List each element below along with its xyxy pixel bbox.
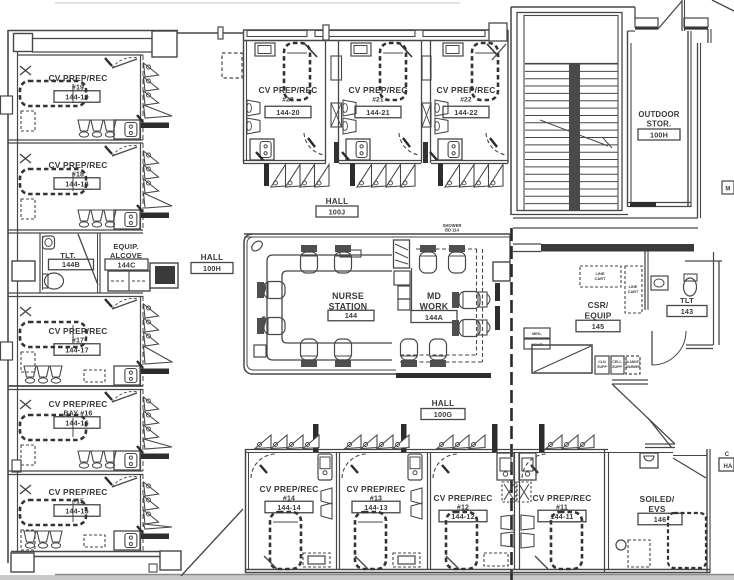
door jamb room 14 [313, 424, 319, 452]
svg-text:CV PREP/REC: CV PREP/REC [434, 493, 493, 503]
tv md right 2 [478, 320, 487, 335]
door jamb bar room 15 [141, 534, 169, 540]
wall: divider tlt/room17 [8, 292, 143, 294]
wall: top band inner line [17, 54, 143, 56]
scissors mark room 19 [20, 66, 31, 75]
wall: room20 left [243, 30, 245, 163]
wall: csr top thin left [513, 243, 541, 245]
svg-text:CV PREP/REC: CV PREP/REC [259, 85, 318, 95]
dashed box hall [222, 53, 242, 78]
door fan room 21 [357, 165, 372, 188]
soiled top wall inner [673, 455, 707, 457]
curtain big triangle room 15 [144, 524, 173, 529]
equip dashed box room 18 [21, 199, 35, 219]
room number box 12 [439, 510, 487, 522]
wall: room12/11 divider [514, 453, 516, 569]
curtain big triangle room 18 [144, 193, 173, 208]
bed room 21 [380, 43, 406, 100]
dark jambs md right [495, 283, 500, 301]
curtain dashed arc room 11 [522, 454, 546, 478]
room number box 144-18 [54, 178, 100, 190]
room number box 11 [538, 510, 586, 522]
chase 21/22 rect lower [422, 103, 431, 127]
wall: room13/12 divider [427, 453, 429, 569]
svg-text:#22: #22 [460, 97, 472, 104]
wall: room14 left [245, 449, 247, 573]
room number box 20 [265, 106, 311, 118]
diagonal into soiled [648, 418, 672, 448]
wall right of diagonal A [681, 0, 683, 31]
curtain fan room 12 [437, 435, 453, 449]
diagonal wall hall100G west [181, 509, 243, 576]
tlt number box 144B [49, 259, 94, 270]
wall stub right of lintel B [707, 29, 709, 43]
bed room 19 [20, 81, 86, 106]
bed room 20 [284, 43, 310, 100]
svg-text:100J: 100J [329, 207, 346, 216]
table room12 [484, 553, 508, 566]
sink unit room 16 [114, 451, 140, 470]
chairs room 19 [78, 120, 90, 131]
entry lintel B [684, 18, 708, 27]
bed room 11 [551, 512, 582, 569]
sink unit room 15 [114, 531, 140, 550]
bottom strip darker edge [55, 574, 734, 576]
curtain dashed arc room 12 [433, 454, 457, 478]
svg-text:STOR.: STOR. [647, 120, 672, 129]
tlt toilet [45, 273, 64, 289]
wall: top of mid rooms outer [243, 29, 508, 31]
svg-text:144A: 144A [425, 313, 443, 322]
door hinge tick room 19 [105, 58, 112, 66]
svg-text:100H: 100H [650, 130, 668, 139]
wall: top of mid rooms inner [243, 40, 508, 42]
tick on top connector [218, 27, 223, 39]
diagonal below csr [612, 384, 675, 444]
column block top-left [14, 34, 33, 52]
column block top band right [152, 31, 177, 57]
wall: right of room15 [140, 474, 142, 551]
hall 100G box [421, 409, 465, 420]
wall: outdoor stor left [627, 31, 629, 207]
outdoor stor door sill [630, 202, 656, 207]
curtain tick room 13 [351, 465, 358, 473]
svg-text:SOILED/: SOILED/ [640, 494, 675, 504]
room number box 144-19 [54, 91, 100, 103]
alcove square below csr [532, 345, 592, 373]
svg-text:#21: #21 [372, 97, 384, 104]
cabinet top-left room 20 [255, 43, 275, 56]
scissors mark room 18 [20, 154, 31, 163]
warmer boxes 12/11 [502, 482, 516, 502]
wall: tlt143 bottom [686, 344, 713, 346]
curtain fan room 14 [255, 435, 271, 449]
curtain fan room 15 [144, 482, 159, 496]
svg-text:CV PREP/REC: CV PREP/REC [349, 85, 408, 95]
svg-text:MD: MD [427, 291, 441, 301]
door leaf room 17 [112, 300, 137, 309]
curtain big triangle room 19 [144, 105, 173, 118]
tv md right 1 [478, 292, 487, 307]
poche chase 21/22 bottom [423, 142, 428, 163]
tv room14 [318, 454, 332, 480]
md dashed counter bottom [400, 354, 477, 356]
tick above wall 20/21 [323, 25, 329, 40]
bed room 17 [20, 322, 86, 347]
chairs room 21 [343, 100, 356, 116]
wall: tlt right outer [685, 260, 722, 262]
wall: right of room16 [140, 389, 142, 471]
window box left wall y350 [1, 342, 13, 360]
curtain fan room 13 [345, 435, 361, 449]
svg-text:CART: CART [594, 276, 606, 281]
curtain dashed arc room 22 [486, 133, 506, 155]
door leaf room 18 [112, 147, 137, 156]
door jamb room 20 [264, 163, 269, 186]
bed room 22 [472, 43, 498, 100]
stair center stringer [569, 63, 580, 210]
door hinge tick room 22 [430, 152, 437, 160]
poche chase 20/21 bottom [334, 142, 339, 163]
wall: bottom rooms top [245, 449, 608, 451]
curtain tick room 22 [490, 138, 497, 147]
soiled door leaf [673, 458, 706, 478]
wall: room21/22 chase [421, 40, 423, 163]
door leaf room22 right [492, 44, 506, 60]
top faint scan line [55, 2, 460, 4]
curtain fan room 17 [144, 304, 159, 318]
room number box 14 [265, 501, 313, 513]
chair nurse left 2 [257, 318, 285, 335]
wall: room22 right [507, 30, 509, 163]
wall: room11/soiled [604, 449, 606, 573]
door hinge tick room 18 [105, 146, 112, 154]
chair md bottom 1 [401, 339, 418, 367]
wall: divider room18/tlt [8, 229, 143, 231]
plant left wall 1 [259, 283, 267, 296]
bed room 12 [446, 512, 477, 569]
window box left wall y465 [12, 460, 21, 472]
outdoor stor box 100H [638, 129, 680, 140]
sink room 20 [250, 139, 274, 160]
tlt door leaf [651, 331, 653, 365]
svg-text:M: M [725, 187, 730, 193]
chair md right 1 [452, 292, 480, 309]
chairs room 16 [78, 451, 90, 462]
equip dashed box room 19 [21, 111, 35, 131]
room number box 22 [443, 106, 489, 118]
curtain dashed arc room 21 [399, 133, 419, 155]
csr box 145 [576, 320, 620, 332]
wall: soiled right [706, 449, 708, 573]
chairs room 17 [24, 366, 36, 377]
chairs room 18 [78, 210, 90, 221]
bed room 14 [270, 512, 301, 569]
svg-text:NURSE: NURSE [332, 291, 364, 301]
door jamb room 21 [350, 163, 355, 186]
table room13 [393, 553, 420, 567]
bed room 18 [20, 169, 86, 194]
svg-text:EQUIP: EQUIP [584, 311, 611, 321]
door jamb bar room 19 [141, 123, 169, 129]
alcove diagonal [534, 346, 591, 372]
sink unit room 19 [114, 120, 140, 139]
stair treads [525, 63, 618, 65]
wall: right of room17 [140, 296, 142, 386]
svg-text:EQUIP.: EQUIP. [113, 242, 138, 251]
door hinge tick room 15 [105, 477, 112, 485]
bed room 13 [355, 512, 386, 569]
chase 20/21 rect lower [331, 103, 342, 127]
wall: bottom rooms bottom [245, 569, 710, 571]
curtain tick room 11 [531, 465, 538, 473]
line cart dashed box v [625, 266, 642, 313]
svg-text:C: C [725, 452, 730, 458]
wall: room14/13 divider [336, 453, 338, 569]
curtain dashed arc room 13 [342, 454, 366, 478]
bottom gray scan strip [0, 575, 734, 580]
wall: outer right of stor [697, 43, 699, 218]
room number box 21 [355, 106, 401, 118]
svg-text:SUPP: SUPP [597, 365, 607, 369]
wall: csr top poche [541, 244, 694, 252]
chair nurse bottom 2 [335, 339, 352, 367]
scissors mark room 17 [20, 307, 31, 316]
curtain dashed arc room 20 [304, 133, 324, 155]
door jamb room 13 [401, 424, 407, 452]
stair break line [540, 120, 608, 146]
curtain dashed arc room 14 [251, 454, 275, 478]
wall: top-left exterior horizontal [8, 30, 178, 32]
wall: stair outer top [511, 6, 628, 8]
curtain fan room 18 [144, 151, 159, 165]
curtain fan room 11 [546, 435, 562, 449]
wall: right of room19 [140, 55, 142, 140]
tlt door leaf [78, 234, 98, 285]
svg-text:145: 145 [592, 322, 605, 331]
chairs room11 left divider [521, 515, 534, 530]
line cart dashed box h [580, 266, 621, 287]
svg-text:144-22: 144-22 [454, 108, 478, 117]
curtain tick room 14 [260, 465, 267, 473]
scissors mark room 16 [20, 400, 31, 409]
soiled circle [616, 540, 626, 550]
chair md top 1 [420, 245, 437, 273]
wall: nurse block top [244, 233, 510, 235]
svg-text:CV PREP/REC: CV PREP/REC [533, 493, 592, 503]
svg-text:HA: HA [723, 464, 733, 470]
svg-text:143: 143 [681, 307, 694, 316]
wall: divider room16/15 [8, 470, 143, 472]
hall label right edge [719, 458, 734, 471]
wall: stair enclosure bottom [511, 214, 628, 216]
alcove block in hall [150, 263, 178, 288]
svg-text:CV PREP/REC: CV PREP/REC [49, 487, 108, 497]
block above wall 22 right [489, 23, 507, 41]
room bottom wall 22 [431, 160, 508, 162]
svg-text:144C: 144C [118, 260, 136, 269]
md work box 144A [411, 311, 457, 323]
nurse counter outer [267, 255, 392, 360]
svg-text:MED-: MED- [532, 332, 542, 336]
wall: top band lower line [32, 51, 153, 53]
wall: room20/21 chase [325, 40, 327, 163]
door leaf room 15 [112, 478, 137, 487]
corner cabinet nurse [254, 345, 266, 357]
equip room11 top [519, 453, 536, 480]
equip dashed box room 16 [21, 445, 35, 465]
sink unit room 18 [114, 210, 140, 229]
nurse station box 144 [328, 310, 374, 321]
door hinge tick room 16 [105, 392, 112, 400]
wall: left block bottom double [11, 551, 181, 553]
wall: top band upper line [32, 38, 153, 40]
curtain tick room 21 [403, 138, 410, 147]
door hinge tick room 21 [342, 152, 349, 160]
svg-text:#20: #20 [282, 97, 294, 104]
side table room 17 [84, 370, 105, 382]
plant left wall 2 [259, 316, 267, 329]
wall md right vertical [509, 234, 511, 262]
wall: outdoor stor bottom [628, 202, 691, 204]
door jamb room 11 [539, 424, 545, 452]
canopy diagonal B [712, 0, 734, 11]
block: bottom wall right end [160, 551, 181, 570]
cabinet stack md [394, 271, 410, 285]
room bottom wall 21 [339, 160, 421, 162]
chairs room12 right divider [501, 515, 514, 530]
room number box 144-17 [54, 344, 100, 356]
tlt143 sink [651, 276, 668, 290]
chairs room 20 [247, 100, 260, 116]
svg-text:OUTDOOR: OUTDOOR [638, 110, 679, 119]
wall: nurse block left [244, 234, 252, 374]
svg-text:HALL: HALL [326, 197, 349, 206]
svg-text:CART: CART [628, 290, 639, 294]
soiled dashed box [628, 540, 650, 567]
wall: nurse block bottom [252, 373, 396, 375]
door jamb bar room 16 [141, 454, 169, 460]
match line [510, 228, 513, 580]
wall md label corner [411, 268, 413, 311]
soiled sink [640, 453, 658, 468]
chase 20/21 rect upper [331, 56, 342, 80]
scissors mark room 15 [20, 485, 31, 494]
block: bottom-left corner [11, 553, 34, 572]
sink room 21 [346, 139, 370, 160]
block md right [493, 262, 510, 281]
alcove number box 144C [105, 259, 148, 270]
box below bottom wall [149, 564, 157, 572]
door hinge tick room 20 [256, 152, 263, 160]
door hinge tick room 17 [105, 299, 112, 307]
wall: left exterior vertical [7, 30, 9, 563]
door leaf room 16 [112, 393, 137, 402]
svg-text:144B: 144B [62, 260, 80, 269]
wall: outdoor stor right [687, 31, 689, 207]
chair nurse top 2 [335, 245, 352, 273]
room number box 144-15 [54, 505, 100, 517]
plant corner nurse [250, 239, 264, 253]
svg-text:TLT: TLT [680, 296, 694, 305]
sink unit room 17 [114, 366, 140, 385]
tlt143 toilet [684, 278, 697, 296]
svg-text:144-20: 144-20 [276, 108, 300, 117]
chairs room14 right [321, 488, 332, 504]
stair bottom landing line [525, 63, 618, 65]
door leaf room 19 [112, 59, 137, 68]
svg-text:CV PREP/REC: CV PREP/REC [260, 484, 319, 494]
nurse counter inner [282, 271, 392, 343]
wall: divider room17/16 [8, 385, 143, 387]
hall 100H box [191, 263, 233, 274]
curtain tick room 20 [308, 138, 315, 147]
bed room 16 [20, 415, 86, 440]
svg-text:144: 144 [345, 311, 358, 320]
wall: stair inner box [517, 13, 622, 211]
curtain fan room 19 [144, 63, 159, 77]
chairs room 22 [435, 100, 448, 116]
cabinet top-left room 21 [351, 43, 371, 56]
side table room 15 [84, 535, 105, 547]
table room14 [303, 553, 330, 567]
curtain big triangle room 16 [144, 439, 173, 449]
chairs room 15 [24, 531, 36, 542]
svg-text:BLANKET: BLANKET [625, 360, 640, 364]
louver door md [394, 240, 410, 268]
wall: top connector to mid block [177, 32, 243, 34]
curtain tick room 12 [442, 465, 449, 473]
wall: tlt/alcove divider [99, 233, 101, 293]
csr shelf boxes [595, 356, 609, 374]
right edge label box M [722, 181, 734, 194]
hall 100J box [316, 206, 358, 217]
svg-text:146: 146 [654, 515, 667, 524]
svg-text:SUPP: SUPP [612, 365, 622, 369]
equip diagonal room 21 [400, 44, 412, 57]
tlt sink [43, 236, 55, 249]
chair nurse bottom 1 [301, 339, 318, 367]
soiled cart [668, 513, 706, 568]
dark bar hall 100G [396, 373, 491, 378]
curtain fan room 16 [144, 397, 159, 411]
wall: divider room19/18 [8, 139, 143, 141]
tlt143 box 143 [667, 306, 707, 317]
svg-text:CLN: CLN [598, 360, 606, 364]
pilaster left wall y270 [12, 261, 35, 281]
sink room 22 [438, 139, 462, 160]
door leaf room 13 [355, 556, 368, 569]
canopy diagonal A [658, 1, 682, 29]
room number box 13 [352, 501, 400, 513]
svg-text:CV PREP/REC: CV PREP/REC [49, 326, 108, 336]
cabinet top-left room 22 [443, 43, 463, 56]
chair md top 2 [449, 245, 466, 273]
bed room 15 [20, 500, 86, 525]
wall: right block lower band [513, 217, 698, 219]
door jamb room 22 [438, 163, 443, 186]
chairs room13 right [411, 488, 422, 504]
svg-text:100G: 100G [434, 410, 453, 419]
door leaf room 12 [446, 556, 459, 569]
md dashed counter top [416, 248, 477, 250]
door leaf room 11 [535, 556, 548, 569]
stair tread box [524, 16, 618, 211]
svg-text:BD 114: BD 114 [445, 228, 460, 233]
svg-text:CV PREP/REC: CV PREP/REC [437, 85, 496, 95]
equip dashed box room 17 [21, 352, 35, 372]
chair nurse left 1 [257, 282, 285, 299]
